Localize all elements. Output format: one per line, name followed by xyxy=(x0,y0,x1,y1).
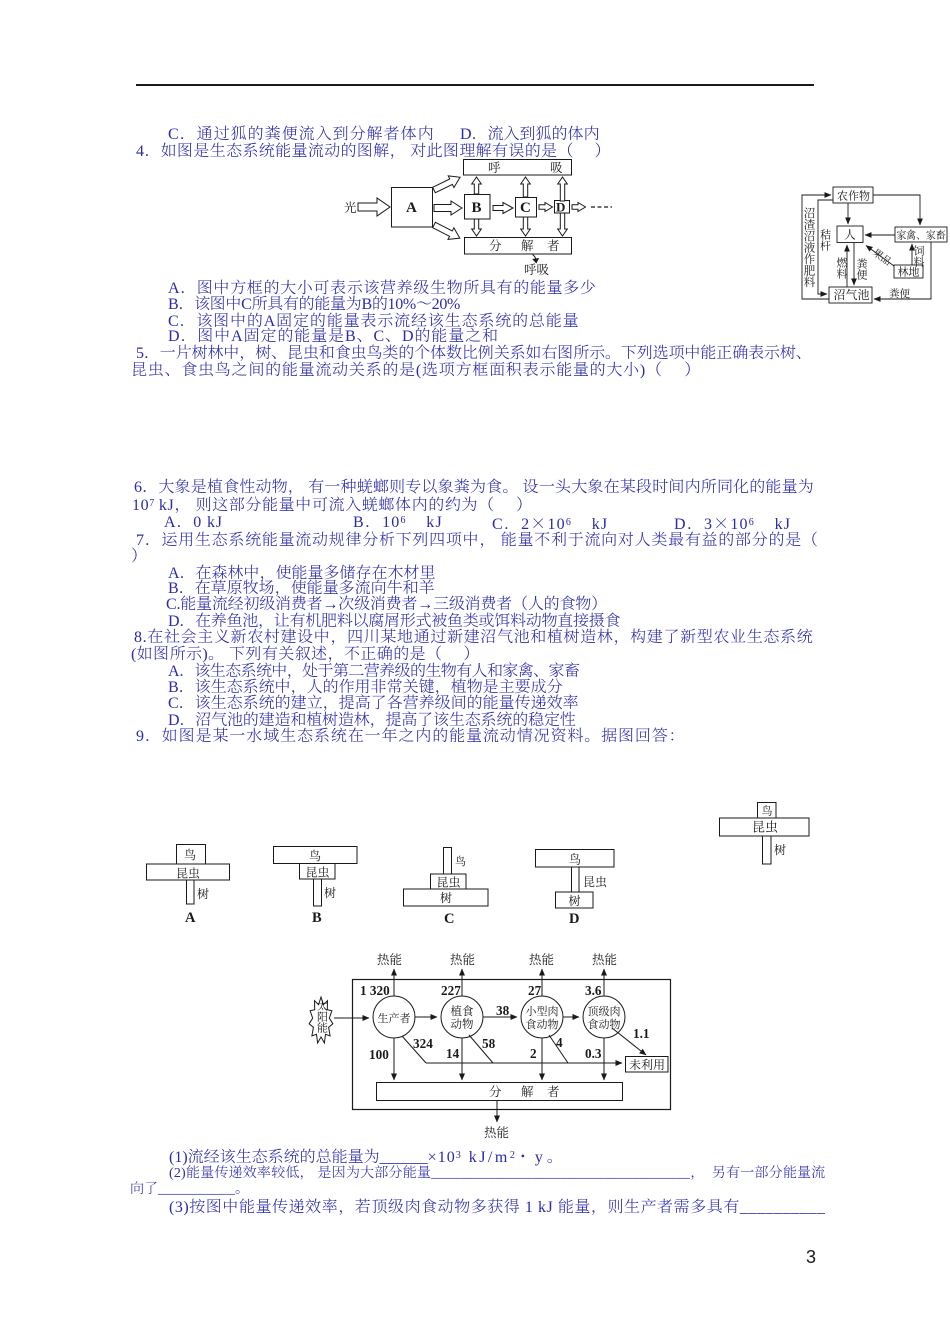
svg-text:沼气池: 沼气池 xyxy=(834,287,870,302)
svg-text:热能: 热能 xyxy=(529,952,554,967)
svg-text:热能: 热能 xyxy=(377,952,402,967)
wire woodland->poultry (feed) xyxy=(911,244,913,265)
svg-text:热能: 热能 xyxy=(592,952,617,967)
option A: tree stem xyxy=(187,880,195,904)
option B: tree stem xyxy=(314,879,322,906)
svg-text:者: 者 xyxy=(547,1084,560,1099)
box crops 农作物 xyxy=(833,187,873,203)
wire herbivores->small carnivores xyxy=(483,1016,517,1018)
labels xyxy=(344,161,563,277)
svg-text:树: 树 xyxy=(774,842,786,857)
svg-text:38: 38 xyxy=(496,1003,510,1018)
wire small carn. up heat xyxy=(541,969,543,996)
hollow arrow D->dashes xyxy=(572,203,586,212)
wire biogas->crops (fertilizer loop) xyxy=(802,195,831,299)
option B: bird box xyxy=(274,847,358,864)
svg-text:鸟: 鸟 xyxy=(569,852,581,867)
option A: insect box xyxy=(147,864,230,880)
svg-text:昆虫: 昆虫 xyxy=(306,865,330,880)
wire sun->producers xyxy=(334,1017,369,1019)
wire producers->herbivores xyxy=(415,1016,437,1018)
box C xyxy=(516,198,537,218)
svg-text:未利用: 未利用 xyxy=(629,1057,665,1072)
svg-text:食动物: 食动物 xyxy=(588,1017,621,1031)
svg-text:果品: 果品 xyxy=(870,247,893,268)
box biogas 沼气池 xyxy=(829,287,872,303)
svg-text:秸杆: 秸杆 xyxy=(819,228,832,251)
circle small carnivores 小型肉食动物 xyxy=(521,996,563,1038)
svg-text:A: A xyxy=(406,200,417,216)
svg-text:解: 解 xyxy=(521,239,534,253)
diagram: Q8 agro-ecosystem xyxy=(795,180,950,310)
flow numbers xyxy=(360,983,649,1062)
hollow arrow A->decomposer xyxy=(431,219,463,244)
option C: bird stem xyxy=(444,848,452,875)
unused collector line xyxy=(426,1062,622,1064)
heat labels 热能 xyxy=(377,952,617,1140)
wire top carn. down decomposer xyxy=(603,1038,605,1080)
svg-text:粪便: 粪便 xyxy=(855,257,868,280)
wire crops->biogas (straw) xyxy=(818,200,833,294)
hollow arrow light->A xyxy=(358,198,390,216)
svg-text:生产者: 生产者 xyxy=(378,1011,411,1025)
wire human->biogas (manure) xyxy=(853,243,855,285)
svg-text:树: 树 xyxy=(324,885,336,900)
option D: insect stem xyxy=(572,867,580,892)
diagonal herbivores->unused xyxy=(469,1035,493,1063)
option C: tree box xyxy=(404,889,489,906)
hollow arrow B down xyxy=(472,219,482,236)
circle producers 生产者 xyxy=(373,996,415,1038)
svg-text:鸟: 鸟 xyxy=(455,854,466,868)
svg-text:太阳能: 太阳能 xyxy=(316,999,329,1033)
svg-text:324: 324 xyxy=(413,1036,433,1051)
svg-text:3.6: 3.6 xyxy=(585,983,602,998)
wire small->top carnivores xyxy=(563,1016,579,1018)
svg-text:动物: 动物 xyxy=(451,1017,474,1031)
small arrow decomposer to resp. below xyxy=(533,255,537,262)
svg-text:顶级肉: 顶级肉 xyxy=(588,1005,621,1018)
svg-text:呼: 呼 xyxy=(488,161,501,175)
svg-text:呼吸: 呼吸 xyxy=(524,263,550,277)
svg-text:热能: 热能 xyxy=(450,952,475,967)
wire woodland->human xyxy=(866,246,894,267)
option D: tree box xyxy=(556,892,594,908)
svg-text:100: 100 xyxy=(369,1047,389,1062)
page number xyxy=(806,1248,816,1266)
top horizontal rule xyxy=(136,84,814,86)
svg-text:解: 解 xyxy=(521,1085,534,1099)
svg-text:0.3: 0.3 xyxy=(585,1046,602,1061)
svg-text:燃料: 燃料 xyxy=(835,256,848,280)
svg-text:沼渣沼液作肥料: 沼渣沼液作肥料 xyxy=(803,207,816,288)
wire crops->human xyxy=(847,203,849,224)
svg-text:4: 4 xyxy=(556,1035,563,1050)
svg-text:者: 者 xyxy=(547,238,560,253)
svg-text:鸟: 鸟 xyxy=(762,804,773,818)
hollow arrow A->respiration xyxy=(431,171,463,195)
svg-text:小型肉: 小型肉 xyxy=(526,1004,559,1018)
svg-text:分: 分 xyxy=(489,1084,502,1099)
wire herbivores down decomposer xyxy=(461,1038,463,1080)
wire crops->poultry xyxy=(873,195,920,225)
svg-text:家禽、家畜: 家禽、家畜 xyxy=(897,229,946,242)
svg-text:鸟: 鸟 xyxy=(309,848,321,863)
box poultry 家禽、家畜 xyxy=(895,227,947,242)
box D xyxy=(555,201,570,214)
reference: insect box xyxy=(720,818,810,836)
hollow arrow C down xyxy=(521,217,531,236)
svg-text:227: 227 xyxy=(441,983,461,998)
sun star 太阳能 xyxy=(309,997,333,1043)
unused box 未利用 xyxy=(626,1057,669,1073)
hollow arrow B->C xyxy=(493,203,513,214)
svg-text:分: 分 xyxy=(489,238,502,253)
svg-text:植食: 植食 xyxy=(451,1004,474,1018)
svg-text:D: D xyxy=(569,911,579,927)
circle top carnivores 顶级肉食动物 xyxy=(583,996,625,1038)
wire poultry->human xyxy=(865,234,895,236)
respiration box top xyxy=(464,160,572,176)
svg-text:27: 27 xyxy=(528,983,542,998)
diagram: Q4 energy flow xyxy=(340,155,630,280)
wire producers up heat xyxy=(393,969,395,996)
svg-text:树: 树 xyxy=(197,886,209,901)
svg-text:食动物: 食动物 xyxy=(526,1017,559,1031)
svg-text:人: 人 xyxy=(844,229,856,242)
svg-text:昆虫: 昆虫 xyxy=(752,820,778,835)
hollow arrow D up xyxy=(558,177,568,201)
svg-text:吸: 吸 xyxy=(550,161,563,175)
svg-text:昆虫: 昆虫 xyxy=(583,874,607,889)
svg-text:C: C xyxy=(444,911,454,927)
svg-text:C: C xyxy=(520,200,531,216)
box woodland 林地 xyxy=(894,265,923,278)
wire producers down decomposer xyxy=(393,1038,395,1080)
box human 人 xyxy=(837,226,863,243)
text lines xyxy=(168,127,435,143)
hollow arrow A->B xyxy=(434,201,462,215)
hollow arrow B up xyxy=(472,177,482,194)
option A: bird box xyxy=(177,845,206,865)
reference: tree stem xyxy=(763,836,772,864)
svg-text:昆虫: 昆虫 xyxy=(437,875,461,890)
option B: insect box xyxy=(300,864,336,880)
svg-text:1.1: 1.1 xyxy=(633,1026,649,1041)
svg-text:热能: 热能 xyxy=(484,1125,509,1140)
hollow arrow D down xyxy=(558,213,568,236)
svg-text:2: 2 xyxy=(530,1046,537,1061)
wire herbivores up heat xyxy=(461,969,463,996)
reference: bird box xyxy=(758,803,777,819)
option C: insect box xyxy=(431,874,467,889)
wire top carn. up heat xyxy=(603,969,605,996)
svg-text:D: D xyxy=(556,200,565,215)
svg-text:光: 光 xyxy=(344,200,357,215)
diagram: Q5 option pyramids xyxy=(130,795,830,935)
decomposer box 分解者 xyxy=(377,1083,623,1101)
svg-text:14: 14 xyxy=(446,1046,460,1061)
outer frame xyxy=(353,980,671,1110)
option D: bird box xyxy=(536,850,615,868)
svg-text:B: B xyxy=(312,910,322,926)
svg-text:树: 树 xyxy=(569,893,581,908)
diagonal producers->unused xyxy=(402,1036,426,1063)
hollow arrow C up xyxy=(521,177,531,197)
diagonal top carn.->unused box xyxy=(612,1028,646,1055)
wire poultry->biogas (manure) xyxy=(874,242,931,299)
svg-text:粪便: 粪便 xyxy=(889,287,910,300)
dashes after D xyxy=(591,206,612,208)
box A xyxy=(392,188,433,228)
svg-text:A: A xyxy=(185,910,196,926)
diagram: Q9 aquatic energy flow xyxy=(295,945,690,1145)
svg-text:鸟: 鸟 xyxy=(184,847,196,862)
diagonal small carn.->unused xyxy=(549,1035,568,1063)
hollow arrow C->D xyxy=(539,203,553,212)
box B xyxy=(465,195,491,220)
svg-text:饲料: 饲料 xyxy=(912,245,925,268)
wire decomposer down heat xyxy=(496,1101,498,1123)
svg-text:58: 58 xyxy=(482,1036,496,1051)
svg-text:1 320: 1 320 xyxy=(360,983,390,998)
decomposer box bottom xyxy=(465,238,572,255)
wire biogas->human (fuel) xyxy=(846,245,848,287)
svg-text:B: B xyxy=(472,200,482,216)
circle herbivores 植食动物 xyxy=(441,996,483,1038)
wire small carn. down decomposer xyxy=(541,1038,543,1080)
svg-text:昆虫: 昆虫 xyxy=(176,866,200,881)
svg-text:农作物: 农作物 xyxy=(837,189,870,203)
svg-text:树: 树 xyxy=(440,890,452,905)
